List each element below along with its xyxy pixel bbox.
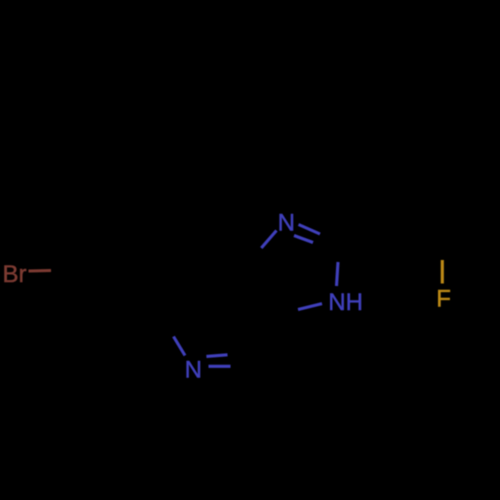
- bond Br-C6 (bromine half, dark red): [29, 269, 52, 273]
- bond N5=C4 inner double-bond line (nitrogen half, blue): [206, 355, 227, 357]
- bond N3-C3a (nitrogen half, blue): [261, 231, 276, 249]
- svg-text:N: N: [185, 356, 202, 383]
- bond N5-C6 (nitrogen half, blue): [174, 337, 186, 356]
- bond N3=C2 main line (nitrogen half, blue): [299, 225, 321, 235]
- svg-text:Br: Br: [3, 261, 27, 288]
- svg-text:NH: NH: [328, 289, 363, 316]
- svg-text:F: F: [436, 286, 451, 313]
- bond C2'-F (fluorine half, gold): [441, 260, 444, 284]
- bond N1-C7a (nitrogen half, blue): [298, 304, 322, 310]
- bond C2-N1 (nitrogen half, blue, vertical): [337, 262, 339, 286]
- svg-text:N: N: [278, 210, 295, 237]
- bond N3=C2 inner double-bond line (nitrogen half, blue): [294, 236, 313, 243]
- bond N5=C4 main line (nitrogen half, blue): [209, 365, 231, 368]
